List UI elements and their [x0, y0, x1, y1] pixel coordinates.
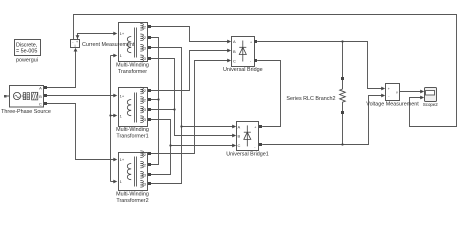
- svg-text:Discrete,: Discrete,: [16, 43, 38, 49]
- wire: Series RLC Branch2 vertical stem: [342, 42, 344, 145]
- wire: Three-Phase Source A to Current Measurement bottom: [47, 50, 76, 88]
- svg-text:Multi-Winding: Multi-Winding: [116, 127, 149, 133]
- svg-text:+: +: [250, 40, 252, 44]
- junction: RLC top tap on DC+ rail: [341, 40, 343, 42]
- svg-text:C: C: [238, 143, 241, 148]
- svg-text:Current Measurement: Current Measurement: [82, 42, 135, 48]
- junction: primary neutral at MWT1 port 1: [109, 114, 111, 116]
- arrowhead into MWT1 1+: [113, 94, 117, 98]
- svg-text:B: B: [238, 134, 241, 139]
- arrowhead into Universal Bridge1 A: [232, 125, 236, 129]
- wire: delta MWT 3 to MWT1 +3 and Universal Bridge1 B: [151, 59, 235, 136]
- Series RLC Branch2 resistor: [340, 77, 346, 114]
- wire: Universal Bridge + output to Voltage Measurement + (with RLC tap): [257, 42, 383, 89]
- svg-text:Three-Phase Source: Three-Phase Source: [1, 109, 51, 115]
- arrowhead into Universal Bridge1 B: [232, 134, 236, 138]
- wire: MWT1 +2 to Universal Bridge B: [151, 51, 230, 91]
- wire: winding-2 neutral bus MWT 2 - MWT1 2 - MWT2 2: [151, 38, 159, 165]
- arrowhead into Scope2 input 1: [420, 90, 424, 94]
- wire: delta MWT2 3 to MWT +3 and Universal Bridge1 A: [151, 48, 235, 184]
- junction: RLC bottom tap on DC- rail: [341, 143, 343, 145]
- svg-text:A: A: [238, 124, 241, 129]
- arrowhead into Universal Bridge A: [227, 40, 231, 44]
- arrowhead into MWT1 1: [113, 114, 117, 118]
- wire: Three-Phase Source B to Multi-Winding Transformer1 port 1+: [47, 95, 116, 97]
- Multi-Winding Transformer1 block: [119, 87, 152, 126]
- svg-text:1+: 1+: [120, 157, 125, 162]
- junction: delta tap at MWT1 +3: [173, 108, 175, 110]
- svg-text:B: B: [39, 94, 42, 99]
- arrowhead into Current Measurement bottom: [74, 48, 78, 52]
- svg-text:+: +: [76, 40, 78, 44]
- svg-text:A: A: [39, 85, 42, 90]
- Multi-Winding Transformer block: [119, 23, 152, 62]
- svg-text:Universal Bridge1: Universal Bridge1: [226, 152, 269, 158]
- svg-text:Transformer2: Transformer2: [116, 198, 148, 204]
- wire: primary neutral bus joining ports 1 of the three transformers: [111, 56, 116, 182]
- svg-text:Series RLC Branch2: Series RLC Branch2: [286, 96, 335, 102]
- Universal Bridge1 block: [237, 122, 263, 151]
- svg-text:Multi-Winding: Multi-Winding: [116, 191, 149, 197]
- svg-text:+: +: [388, 87, 390, 91]
- junction: delta tap to Bridge1 C: [169, 144, 171, 146]
- svg-text:powergui: powergui: [16, 58, 38, 64]
- Three-Phase Source block: [4, 85, 47, 107]
- arrowhead into MWT2 1: [113, 180, 117, 184]
- junction: winding-2 bus at MWT1 port 2: [157, 98, 159, 100]
- svg-text:Transformer1: Transformer1: [116, 134, 148, 140]
- svg-text:+: +: [254, 126, 256, 130]
- svg-text:+3: +3: [141, 172, 146, 177]
- junction: delta tap to Bridge1 A: [180, 125, 182, 127]
- wire: Universal Bridge - to Universal Bridge1 + (series DC link): [257, 61, 280, 127]
- wire: Three-Phase Source C to Multi-Winding Transformer2 port 1+: [47, 104, 116, 160]
- svg-text:Multi-Winding: Multi-Winding: [116, 63, 149, 69]
- wire: MWT2 +2 to Universal Bridge C: [151, 61, 230, 154]
- arrowhead into Universal Bridge B: [227, 49, 231, 53]
- svg-text:C: C: [233, 59, 236, 64]
- Multi-Winding Transformer2 block: [119, 151, 152, 191]
- svg-text:Scope2: Scope2: [423, 102, 438, 107]
- arrowhead into Voltage Measurement -: [381, 94, 385, 98]
- wire: delta MWT1 3 to MWT2 +3 and Universal Bridge1 C: [151, 120, 235, 175]
- wire: Universal Bridge1 - output to Voltage Measurement - (RLC bottom tap): [262, 96, 383, 145]
- Universal Bridge block: [232, 37, 258, 67]
- svg-text:v: v: [396, 91, 398, 95]
- Voltage Measurement block: [386, 84, 400, 101]
- arrowhead into Universal Bridge C: [227, 59, 231, 63]
- arrowhead into MWT2 1+: [113, 158, 117, 162]
- wire: Voltage Measurement v output to Scope2 input 1: [400, 91, 422, 93]
- svg-text:A: A: [233, 39, 236, 44]
- arrowhead into Current Measurement top: [76, 35, 80, 39]
- arrowhead into Scope2 input 2: [420, 96, 424, 100]
- svg-text:B: B: [233, 49, 236, 54]
- wire: MWT +2 to Universal Bridge A: [151, 27, 230, 42]
- svg-text:1+: 1+: [120, 94, 125, 99]
- arrowhead into Voltage Measurement +: [381, 87, 385, 91]
- svg-text:Universal Bridge: Universal Bridge: [223, 67, 263, 73]
- Scope2 block: [425, 88, 437, 102]
- Current Measurement block: [71, 40, 80, 49]
- arrowhead into MWT 1: [113, 54, 117, 58]
- powergui block: [15, 40, 41, 56]
- arrowhead into MWT 1+: [113, 32, 117, 36]
- arrowhead into Universal Bridge1 C: [232, 144, 236, 148]
- wire: Current Measurement i output to Scope2 input 2 (big loop): [74, 15, 457, 127]
- svg-text:Voltage Measurement: Voltage Measurement: [366, 101, 419, 107]
- svg-text:Transformer: Transformer: [118, 69, 147, 75]
- svg-text:C: C: [39, 101, 42, 106]
- wire: Current Measurement top to Multi-Winding Transformer port 1+: [78, 34, 116, 40]
- svg-text:= 5e-005: = 5e-005: [16, 49, 37, 55]
- svg-text:1+: 1+: [120, 31, 125, 36]
